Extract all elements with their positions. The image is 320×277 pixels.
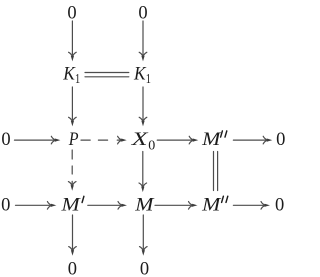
arrow K1 to P [69,87,77,126]
svg-text:K1: K1 [62,65,80,87]
arrow X0 to M'' [157,136,198,144]
svg-text:M: M [134,196,155,216]
arrow 0 to M' [16,202,57,210]
svg-text:0: 0 [68,259,77,277]
arrow M'' to 0 (row3) [233,136,272,144]
double line M'' = M'' [214,152,218,191]
svg-text:K1: K1 [133,65,151,87]
svg-text:0: 0 [67,3,76,23]
arrow M'' to 0 (row4) [233,202,270,210]
svg-text:M: M [201,196,222,216]
svg-text:0: 0 [276,130,285,150]
svg-text:0: 0 [138,3,147,23]
svg-text:X0: X0 [130,130,155,153]
svg-text:0: 0 [275,196,284,216]
arrow P to M' (dashed) [68,150,76,191]
svg-text:0: 0 [1,196,10,216]
svg-text:P: P [68,130,79,150]
svg-text:0: 0 [1,130,10,150]
svg-text:M: M [60,196,81,216]
arrow M to 0 [140,215,148,256]
arrow M' to M [88,202,127,210]
arrow M to M'' [155,202,198,210]
arrow K1 to X0 [139,87,147,126]
arrow M' to 0 [69,215,77,256]
svg-text:M: M [201,130,222,150]
arrow 0 to P [15,136,61,144]
arrow 0 to K1 (right) [139,21,147,61]
arrow 0 to K1 (left) [69,21,77,61]
svg-text:0: 0 [140,259,149,277]
double line K1 = K1 [85,73,129,77]
arrow P to X0 (dashed) [81,136,127,144]
arrow X0 to M [139,152,147,193]
